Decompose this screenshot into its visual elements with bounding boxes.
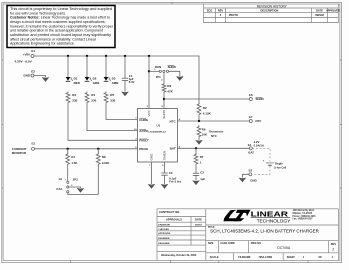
svg-text:092903: 092903 <box>195 224 203 226</box>
svg-text:CAGE CODE: CAGE CODE <box>220 242 235 245</box>
svg-text:E7: E7 <box>249 115 253 119</box>
svg-text:E4: E4 <box>248 143 252 147</box>
svg-text:0.5A/1A: 0.5A/1A <box>254 144 264 148</box>
svg-text:NTC: NTC <box>211 134 217 138</box>
svg-text:GND: GND <box>23 74 31 78</box>
svg-text:APPROVED: APPROVED <box>326 9 340 12</box>
svg-text:R6: R6 <box>202 127 206 131</box>
wire VCC <box>148 56 150 109</box>
svg-text:1630 McCarthy Blvd.: 1630 McCarthy Blvd. <box>293 209 315 212</box>
svg-text:R1: R1 <box>71 155 75 159</box>
svg-text:DC705A: DC705A <box>277 246 291 250</box>
svg-text:1A: 1A <box>58 177 62 181</box>
svg-text:330: 330 <box>110 98 115 102</box>
svg-text:092903: 092903 <box>315 13 324 17</box>
svg-text:C2: C2 <box>200 170 204 174</box>
svg-text:CONTRACT NO.: CONTRACT NO. <box>159 210 180 214</box>
svg-text:DRAWN: DRAWN <box>158 224 167 227</box>
svg-text:SIZE: SIZE <box>208 242 214 245</box>
svg-text:E2: E2 <box>31 69 35 73</box>
svg-text:DESIGNER: DESIGNER <box>158 243 170 245</box>
svg-text:47K: 47K <box>167 90 173 94</box>
LED D3 AMB <box>104 56 120 85</box>
wire NTC net <box>178 120 250 122</box>
svg-text:E3: E3 <box>31 142 35 146</box>
svg-text:R4: R4 <box>91 93 95 97</box>
svg-text:SCALE: SCALE <box>210 255 219 259</box>
resistor R8 3.01K <box>96 149 110 195</box>
resistor R1 1.5K <box>66 149 79 181</box>
svg-text:NTC: NTC <box>256 119 262 123</box>
connector E7 NTC <box>249 115 261 123</box>
svg-text:CHECKED: CHECKED <box>158 229 169 231</box>
resistor R3 330 <box>66 92 78 104</box>
svg-text:DATE: DATE <box>316 8 323 12</box>
ground at C1 <box>121 80 129 96</box>
connector E5 GND <box>249 168 257 182</box>
ground at JP2 <box>69 187 84 193</box>
jumper JP2 1A/0.5A <box>56 177 98 194</box>
svg-text:E6: E6 <box>249 93 253 97</box>
svg-text:Fax: (408)434-0507: Fax: (408)434-0507 <box>293 218 314 221</box>
svg-text:330: 330 <box>91 98 96 102</box>
svg-text:REV: REV <box>218 8 224 12</box>
svg-text:OF: OF <box>319 256 323 259</box>
ground at JP1 <box>169 71 184 81</box>
resistor R7 1 <box>194 148 204 165</box>
svg-text:MONITOR: MONITOR <box>12 151 27 155</box>
resistor R9 47K <box>162 72 174 108</box>
svg-text:Milpitas, CA 95035: Milpitas, CA 95035 <box>293 212 313 215</box>
wire SHDN net <box>164 98 249 100</box>
svg-text:2: 2 <box>332 248 334 252</box>
IC U1 LTC4053EMS-4.2 <box>134 106 181 167</box>
svg-text:E5: E5 <box>249 168 253 172</box>
connector E3 CURRENT MONITOR <box>12 142 36 155</box>
svg-text:SHEET: SHEET <box>287 256 296 259</box>
svg-text:JP1: JP1 <box>156 75 161 79</box>
svg-text:Li-Ion Cell: Li-Ion Cell <box>274 166 287 170</box>
svg-text:RED: RED <box>74 81 81 85</box>
svg-text:BAT: BAT <box>248 151 254 155</box>
svg-text:U1: U1 <box>157 124 161 128</box>
svg-text:1µF: 1µF <box>200 177 205 181</box>
svg-text:ENGINEER: ENGINEER <box>158 238 170 240</box>
svg-text:REVISION HISTORY: REVISION HISTORY <box>257 4 288 8</box>
ground at E2 <box>34 76 49 82</box>
connector E4 BAT <box>248 140 264 155</box>
svg-text:MD: MD <box>167 224 171 226</box>
title block <box>157 209 338 261</box>
connector E2 GND <box>23 69 35 77</box>
capacitor C1 1µF 6.3V <box>122 56 135 84</box>
svg-text:0.5A: 0.5A <box>56 187 62 191</box>
svg-text:R3: R3 <box>72 93 76 97</box>
svg-text:E1: E1 <box>31 49 35 53</box>
capacitor C2 1µF <box>193 165 206 181</box>
svg-text:Applications Engineering for a: Applications Engineering for assistance. <box>10 42 75 46</box>
svg-text:Phone: (408)432-1900: Phone: (408)432-1900 <box>293 215 317 218</box>
svg-text:330: 330 <box>72 98 77 102</box>
svg-text:AMB: AMB <box>112 81 120 85</box>
svg-text:JP2: JP2 <box>73 178 78 182</box>
svg-text:GND: GND <box>150 153 154 161</box>
wire BAT net <box>178 147 250 149</box>
capacitor C3 0.1µF <box>161 162 181 184</box>
svg-text:R9: R9 <box>167 84 171 88</box>
svg-text:APPROVALS: APPROVALS <box>166 218 182 222</box>
svg-text:4.25V - 6.5V: 4.25V - 6.5V <box>15 60 33 64</box>
LED D1 RED <box>66 56 81 85</box>
svg-text:CHRG: CHRG <box>139 118 148 122</box>
svg-text:TIMER: TIMER <box>163 150 167 160</box>
wire D3/R5 to CHRG <box>106 104 138 120</box>
svg-text:GND: GND <box>250 178 256 182</box>
svg-text:4.12K: 4.12K <box>203 111 212 115</box>
ground at C3 <box>161 175 169 189</box>
wire +VIN rail <box>34 56 199 104</box>
svg-text:ACPR: ACPR <box>139 129 148 133</box>
svg-text:ECO: ECO <box>207 8 213 12</box>
LED D2 GRN <box>85 56 100 85</box>
svg-text:R2: R2 <box>203 106 207 110</box>
svg-text:RUN: RUN <box>155 65 161 69</box>
svg-text:for use with Linear Technology: for use with Linear Technology parts. <box>10 11 66 15</box>
connector E1 +VIN <box>15 49 36 64</box>
svg-text:and reliable operation in the: and reliable operation in the actual app… <box>10 29 103 33</box>
svg-text:For 3 hrs: For 3 hrs <box>169 180 182 184</box>
resistor R4 330 <box>85 92 97 104</box>
svg-text:3.01K: 3.01K <box>102 161 111 165</box>
Linear Technology logo <box>224 209 317 223</box>
wire D2/R4 to ACPR <box>87 104 138 131</box>
svg-text:R5: R5 <box>110 93 114 97</box>
svg-text:DATE: DATE <box>195 218 202 222</box>
ground at E5 <box>239 174 249 182</box>
svg-text:R7: R7 <box>200 155 204 159</box>
svg-text:6.3V: 6.3V <box>129 80 135 84</box>
svg-text:DWG NO: DWG NO <box>251 242 261 245</box>
svg-text:+VIN: +VIN <box>23 52 30 56</box>
wire D1/R3 to FAULT <box>68 104 138 141</box>
wire PROG net <box>34 148 137 150</box>
battery B1 single Li-Ion cell <box>252 148 287 174</box>
connector E6 SHDN <box>249 93 264 101</box>
svg-text:SCH, LTC4053EMS-4.2, LI-ION BA: SCH, LTC4053EMS-4.2, LI-ION BATTERY CHAR… <box>210 228 319 233</box>
svg-text:TECHNOLOGY: TECHNOLOGY <box>257 218 291 223</box>
svg-text:FAULT: FAULT <box>139 139 149 143</box>
svg-text:NTC: NTC <box>170 119 177 123</box>
svg-text:BAT: BAT <box>170 147 176 151</box>
revision history table <box>204 4 341 23</box>
svg-text:R8: R8 <box>102 155 106 159</box>
svg-text:705A-2.DSN: 705A-2.DSN <box>259 256 273 259</box>
svg-text:Wednesday, October 29, 2003: Wednesday, October 29, 2003 <box>161 254 197 257</box>
svg-text:C3: C3 <box>169 171 173 175</box>
svg-text:1.5K: 1.5K <box>71 161 78 165</box>
svg-text:PROTO: PROTO <box>229 13 238 17</box>
jumper JP1 RUN/SHDN <box>149 65 176 81</box>
svg-text:PROG: PROG <box>139 147 149 151</box>
svg-text:VCC: VCC <box>147 109 151 116</box>
svg-text:Single: Single <box>275 162 283 166</box>
svg-text:GRN: GRN <box>93 81 100 85</box>
svg-text:LTC4053EMS-4.2: LTC4053EMS-4.2 <box>148 130 166 133</box>
svg-text:APPROVED: APPROVED <box>158 232 170 235</box>
resistor R2 4.12K <box>197 103 212 121</box>
resistor R5 330 <box>104 92 116 104</box>
svg-text:DESCRIPTION: DESCRIPTION <box>261 8 279 12</box>
ground at R6 <box>195 138 203 145</box>
svg-text:REV: REV <box>331 242 337 246</box>
ground at U1 GND pin <box>148 162 156 189</box>
svg-text:FILENAME: FILENAME <box>238 256 251 259</box>
resistor R6 10K thermistor <box>197 125 224 138</box>
proprietary notice box <box>7 6 115 48</box>
svg-text:SHDN: SHDN <box>162 110 166 119</box>
ground at C2 <box>192 175 200 185</box>
